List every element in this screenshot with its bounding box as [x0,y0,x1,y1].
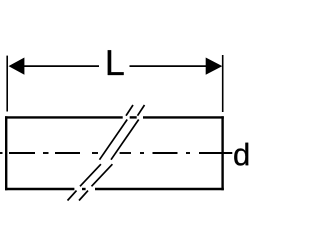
top edge segment 2 [130,116,137,118]
top edge segment 3 [143,116,224,118]
dimension line right part [130,65,207,67]
centre line (dash-dot axis) [0,152,232,154]
extension line right [222,55,224,112]
bottom edge segment 2 [82,188,86,190]
extension line left [6,56,8,112]
dimension line left part [24,65,99,67]
right edge [221,116,223,190]
break line 2 (right diagonal, segmented) [79,105,145,201]
break line 1 (left diagonal, segmented) [68,105,134,201]
bottom edge segment 1 [5,188,74,190]
top edge segment 1 [5,116,123,118]
bottom edge segment 3 [95,188,224,190]
label d (diameter) [234,143,248,166]
left edge [5,116,7,190]
arrowhead left [9,58,25,75]
arrowhead right [206,58,223,75]
label L (length) [108,50,124,75]
rod body outline (rectangle, top/bottom edges broken at break lines) [5,116,224,190]
